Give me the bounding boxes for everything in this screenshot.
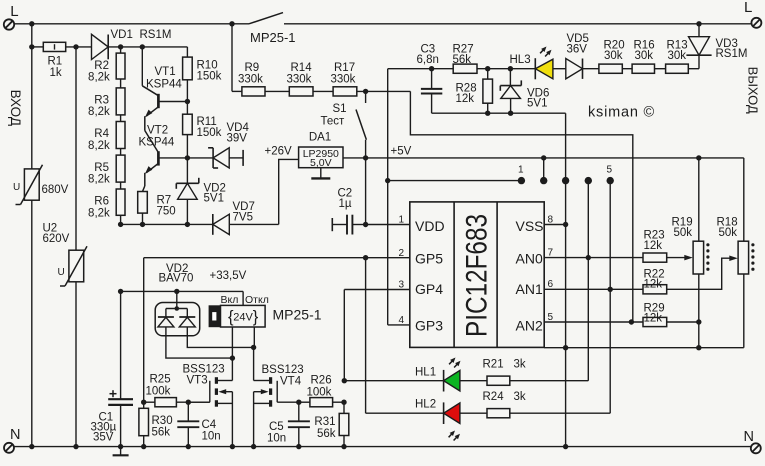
svg-text:Откл: Откл [245,294,269,306]
svg-text:10n: 10n [202,431,221,443]
svg-text:R25: R25 [150,374,171,386]
svg-text:R4: R4 [94,128,109,140]
svg-text:39V: 39V [227,133,248,145]
svg-text:50k: 50k [719,227,738,239]
svg-text:5V1: 5V1 [204,193,224,205]
svg-text:12k: 12k [456,93,475,105]
svg-text:N: N [10,427,20,443]
svg-text:5,0V: 5,0V [310,157,332,169]
svg-text:R1: R1 [48,56,63,68]
svg-text:680V: 680V [42,184,69,196]
svg-text:+5V: +5V [391,146,412,158]
svg-text:150k: 150k [197,127,222,139]
svg-text:AN2: AN2 [516,318,543,334]
svg-text:+33,5V: +33,5V [210,270,247,282]
svg-text:R2: R2 [94,60,109,72]
svg-text:VSS: VSS [516,218,544,234]
svg-text:1µ: 1µ [339,198,352,210]
svg-text:KSP44: KSP44 [139,137,175,149]
svg-text:7V5: 7V5 [233,212,253,224]
svg-text:6: 6 [548,279,554,290]
svg-text:L: L [10,3,18,20]
svg-text:10n: 10n [267,433,286,445]
svg-text:AN1: AN1 [516,281,543,297]
svg-text:R24: R24 [483,391,505,403]
svg-text:AN0: AN0 [516,251,543,267]
svg-text:VT2: VT2 [147,125,168,137]
svg-text:56k: 56k [152,427,171,439]
svg-text:7: 7 [548,248,554,259]
svg-text:8,2k: 8,2k [88,106,110,118]
svg-text:1k: 1k [50,67,62,79]
svg-text:56k: 56k [317,428,336,440]
svg-text:12k: 12k [644,278,663,290]
svg-text:R26: R26 [311,375,332,387]
svg-text:VT3: VT3 [187,375,208,387]
svg-text:МР25-1: МР25-1 [273,307,322,323]
svg-text:VDD: VDD [415,218,445,234]
svg-text:Вкл: Вкл [221,294,239,306]
svg-text:30k: 30k [668,50,687,62]
svg-text:GP3: GP3 [415,318,443,334]
svg-text:330k: 330k [331,74,356,86]
svg-text:100k: 100k [146,386,171,398]
svg-text:R5: R5 [94,162,109,174]
svg-text:KSP44: KSP44 [146,79,182,91]
svg-text:8,2k: 8,2k [88,173,110,185]
svg-text:PIC12F683: PIC12F683 [461,214,494,337]
svg-text:R14: R14 [291,62,313,74]
svg-text:1: 1 [518,165,524,176]
svg-text:МР25-1: МР25-1 [250,30,296,45]
svg-text:VT1: VT1 [155,66,176,78]
svg-text:GP5: GP5 [415,251,443,267]
svg-text:{: { [228,308,234,326]
svg-text:R21: R21 [483,359,504,371]
svg-text:HL3: HL3 [510,54,531,66]
svg-text:Тест: Тест [321,116,346,128]
svg-text:50k: 50k [674,227,693,239]
svg-text:HL1: HL1 [415,367,436,379]
svg-text:5: 5 [607,165,613,176]
svg-text:ВЫХОД: ВЫХОД [746,67,761,114]
svg-text:330k: 330k [238,74,263,86]
svg-text:24V: 24V [233,311,253,323]
svg-text:N: N [744,429,754,445]
svg-text:R30: R30 [152,415,173,427]
svg-text:BSS123: BSS123 [262,364,304,376]
svg-text:30k: 30k [635,50,654,62]
svg-text:L: L [744,0,752,16]
svg-text:R3: R3 [94,95,109,107]
svg-text:C5: C5 [269,421,284,433]
svg-text:RS1M: RS1M [716,48,748,60]
svg-text:U: U [58,267,65,278]
svg-text:R31: R31 [314,416,335,428]
svg-text:12k: 12k [644,313,663,325]
svg-text:30k: 30k [604,50,623,62]
svg-text:R9: R9 [245,62,260,74]
svg-text:8,2k: 8,2k [88,207,110,219]
svg-text:8,2k: 8,2k [88,71,110,83]
svg-text:R17: R17 [334,62,355,74]
svg-text:56k: 56k [453,54,472,66]
svg-text:HL2: HL2 [415,399,436,411]
svg-text:ksiman ©: ksiman © [588,105,655,121]
svg-text:+26V: +26V [265,146,293,158]
svg-text:6,8n: 6,8n [417,54,439,66]
svg-text:S1: S1 [333,103,347,115]
svg-text:150k: 150k [197,71,222,83]
svg-text:C4: C4 [202,419,217,431]
svg-text:100k: 100k [307,387,332,399]
svg-text:VT4: VT4 [280,376,302,388]
svg-text:330k: 330k [287,74,312,86]
svg-text:U: U [13,182,20,193]
svg-text:3k: 3k [514,391,526,403]
svg-text:5V1: 5V1 [527,98,547,110]
svg-text:R6: R6 [94,196,109,208]
svg-text:VD1: VD1 [111,29,133,41]
svg-text:12k: 12k [644,240,663,252]
svg-text:36V: 36V [567,44,588,56]
svg-text:8,2k: 8,2k [88,140,110,152]
svg-text:BAV70: BAV70 [159,273,194,285]
svg-text:620V: 620V [43,233,70,245]
svg-text:750: 750 [157,206,176,218]
svg-text:RS1M: RS1M [140,29,172,41]
svg-text:35V: 35V [93,432,114,444]
svg-text:3k: 3k [514,359,526,371]
svg-text:DA1: DA1 [309,132,331,144]
svg-text:ВХОД: ВХОД [8,90,23,126]
svg-text:}: } [253,308,259,326]
svg-text:GP4: GP4 [415,281,443,297]
